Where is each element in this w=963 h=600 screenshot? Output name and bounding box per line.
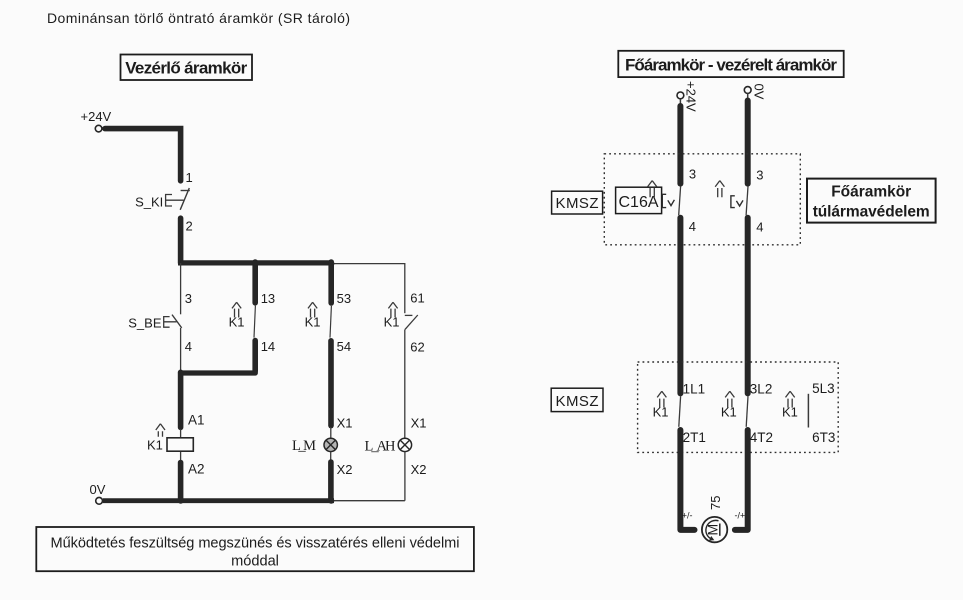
svg-text:K1: K1 xyxy=(305,315,321,330)
wire: S_BE pin 4 down (thin) xyxy=(180,328,182,371)
wire: top bus (thick) xyxy=(178,260,333,265)
svg-text:K1: K1 xyxy=(229,315,245,330)
svg-text:L_AH: L_AH xyxy=(365,439,397,455)
svg-text:4T2: 4T2 xyxy=(750,430,773,445)
svg-text:L_M: L_M xyxy=(292,438,316,454)
svg-text:Főáramkör: Főáramkör xyxy=(831,184,911,201)
wire: thin into lamp xyxy=(330,427,332,438)
wire: bottom bus (thick) xyxy=(103,498,334,503)
wire: lamp L_M to bottom bus xyxy=(330,452,332,499)
svg-text:1: 1 xyxy=(186,170,193,185)
motor M1 (DC motor) xyxy=(702,517,727,542)
contactor dashed enclosure xyxy=(638,362,839,452)
svg-text:61: 61 xyxy=(410,291,424,306)
svg-text:Működtetés feszültség megszüné: Működtetés feszültség megszünés és vissz… xyxy=(51,536,460,552)
wire: 0V terminal neck xyxy=(747,93,749,99)
junction node (bus / A2) xyxy=(178,498,184,504)
svg-text:S_KI: S_KI xyxy=(135,195,163,210)
wire: coil A2 to bottom bus xyxy=(178,463,184,500)
lamp L_M xyxy=(292,438,337,454)
contact K1 53-54 (NO) xyxy=(330,306,331,338)
label box: Vezérlő áramkör xyxy=(121,55,253,81)
svg-text:62: 62 xyxy=(410,340,424,355)
wire: 4T2 down to motor (thick L) xyxy=(735,430,748,530)
contact K1 3L2-4T2 xyxy=(746,396,748,427)
wire: pin 14 down to latch bar xyxy=(252,341,258,372)
K1 arrow (13/14) xyxy=(232,302,241,317)
svg-text:S_BE: S_BE xyxy=(128,316,162,331)
svg-text:C16A: C16A xyxy=(619,194,659,211)
K1 arrow (pole 1L1) xyxy=(657,391,666,407)
terminal 0V (left) xyxy=(96,497,103,504)
K1 arrow (pole 3L2) xyxy=(725,391,734,407)
wire: latch horizontal 14->branch1 xyxy=(181,370,256,375)
lamp L_AH xyxy=(365,438,412,454)
wire: 62 down to lamp L_AH xyxy=(404,330,406,439)
svg-text:KMSZ: KMSZ xyxy=(556,393,599,410)
wire: pin 54 down to lamp L_M xyxy=(328,341,334,426)
svg-text:+/-: +/- xyxy=(682,511,693,521)
wire: bus down to K1 pin 13 (thick) xyxy=(252,262,258,303)
contact K1 61-62 (NC) xyxy=(405,315,418,330)
svg-text:móddal: móddal xyxy=(231,554,279,570)
svg-text:0V: 0V xyxy=(90,482,106,497)
svg-text:+24V: +24V xyxy=(81,109,112,124)
wire: thin branch to 61 xyxy=(404,263,406,313)
svg-text:X1: X1 xyxy=(337,415,353,430)
svg-text:53: 53 xyxy=(337,291,351,306)
wire: top bus thin extension to branch 61 xyxy=(333,263,405,265)
wire: bus to S_BE pin 3 (thin) xyxy=(180,263,182,314)
wire: L line down to breaker pin 3 xyxy=(677,106,683,184)
svg-text:K1: K1 xyxy=(147,437,163,452)
contact K1 5L3-6T3 (unused pole) xyxy=(807,394,809,428)
junction node (bus / 13) xyxy=(252,260,258,266)
svg-text:0V: 0V xyxy=(752,84,767,100)
svg-text:4: 4 xyxy=(185,339,192,354)
label box: Főáramkör - vezérelt áramkör xyxy=(618,51,843,77)
svg-text:2: 2 xyxy=(186,219,193,234)
K1 arrow (53/54) xyxy=(308,302,317,317)
svg-text:K1: K1 xyxy=(782,404,798,419)
breaker arrow (pole 2) xyxy=(715,181,724,198)
svg-text:1L1: 1L1 xyxy=(683,381,706,396)
breaker arrow (pole 1) xyxy=(648,181,657,198)
svg-text:75: 75 xyxy=(708,496,723,510)
svg-text:K1: K1 xyxy=(384,315,400,330)
K1 arrow (pole 5L3) xyxy=(786,391,795,407)
svg-text:A1: A1 xyxy=(188,413,205,428)
wire: bottom bus thin extension xyxy=(334,500,405,502)
wire: L line breaker to K1 (thick) xyxy=(677,218,683,394)
wire: S_KI pin 2 down to bus xyxy=(178,218,184,263)
svg-text:6T3: 6T3 xyxy=(812,430,835,445)
svg-text:13: 13 xyxy=(261,291,275,306)
svg-text:túlármavédelem: túlármavédelem xyxy=(813,204,930,221)
relay coil K1 xyxy=(147,429,193,461)
wire: N line breaker to K1 (thick) xyxy=(745,218,751,394)
label box: KMSZ (contactor) xyxy=(551,388,603,411)
breaker release symbol (pole 1) xyxy=(662,194,674,207)
svg-text:X2: X2 xyxy=(411,462,427,477)
svg-text:KMSZ: KMSZ xyxy=(556,195,599,212)
wire: lamp L_AH to bottom bus xyxy=(404,452,406,501)
label box: Főáramkör túlármavédelem xyxy=(807,179,936,223)
svg-text:54: 54 xyxy=(337,339,351,354)
svg-text:5L3: 5L3 xyxy=(812,381,835,396)
switch S_BE (NO pushbutton) xyxy=(128,315,181,331)
wire: 2T1 down to motor (thick L) xyxy=(680,430,694,530)
svg-text:Dominánsan törlő öntrató áramk: Dominánsan törlő öntrató áramkör (SR tár… xyxy=(47,10,350,26)
svg-text:4: 4 xyxy=(756,220,763,235)
breaker dashed enclosure xyxy=(604,154,800,245)
terminal 0V (right) xyxy=(744,87,751,94)
contact K1 13-14 (NO) xyxy=(254,306,255,338)
svg-text:2T1: 2T1 xyxy=(683,430,706,445)
K1 coil arrow xyxy=(156,424,165,437)
wire: bus down to K1 pin 53 (thick) xyxy=(328,262,334,303)
svg-text:A2: A2 xyxy=(188,462,205,477)
svg-text:Főáramkör - vezérelt áramkör: Főáramkör - vezérelt áramkör xyxy=(625,56,837,75)
caption box: Működtetés ... xyxy=(36,527,474,571)
svg-text:K1: K1 xyxy=(653,404,669,419)
breaker release symbol (pole 2) xyxy=(731,196,743,208)
junction node (bus / X2) xyxy=(328,498,334,504)
svg-text:14: 14 xyxy=(261,339,275,354)
wire: branch1 thick down to coil A1 xyxy=(178,372,184,427)
K1 arrow (61/62) xyxy=(388,302,397,317)
svg-text:3: 3 xyxy=(756,168,763,183)
terminal +24V (right) xyxy=(677,92,684,99)
svg-text:X2: X2 xyxy=(337,462,353,477)
svg-text:3: 3 xyxy=(689,167,696,182)
svg-text:X1: X1 xyxy=(411,415,427,430)
switch S_KI (NC pushbutton) xyxy=(135,188,190,210)
breaker contact (pole 2) xyxy=(746,186,748,215)
svg-text:3: 3 xyxy=(185,291,192,306)
wire: +24V terminal neck xyxy=(679,99,681,105)
breaker contact (pole 1) xyxy=(679,186,681,215)
svg-text:Vezérlő áramkör: Vezérlő áramkör xyxy=(125,59,247,78)
svg-text:K1: K1 xyxy=(721,404,737,419)
label box: KMSZ (breaker) xyxy=(552,191,603,214)
contact K1 1L1-2T1 xyxy=(679,396,681,427)
wire: +24V to S_KI pin 1 xyxy=(105,129,181,181)
wire: N line down to breaker pin 3 xyxy=(745,101,751,184)
terminal +24V (left) xyxy=(95,125,102,132)
svg-text:4: 4 xyxy=(689,219,696,234)
junction node (bus / 53) xyxy=(328,260,334,266)
svg-text:-/+: -/+ xyxy=(735,511,746,521)
label box: C16A xyxy=(616,187,662,213)
svg-text:3L2: 3L2 xyxy=(750,381,773,396)
svg-text:+24V: +24V xyxy=(684,81,699,112)
